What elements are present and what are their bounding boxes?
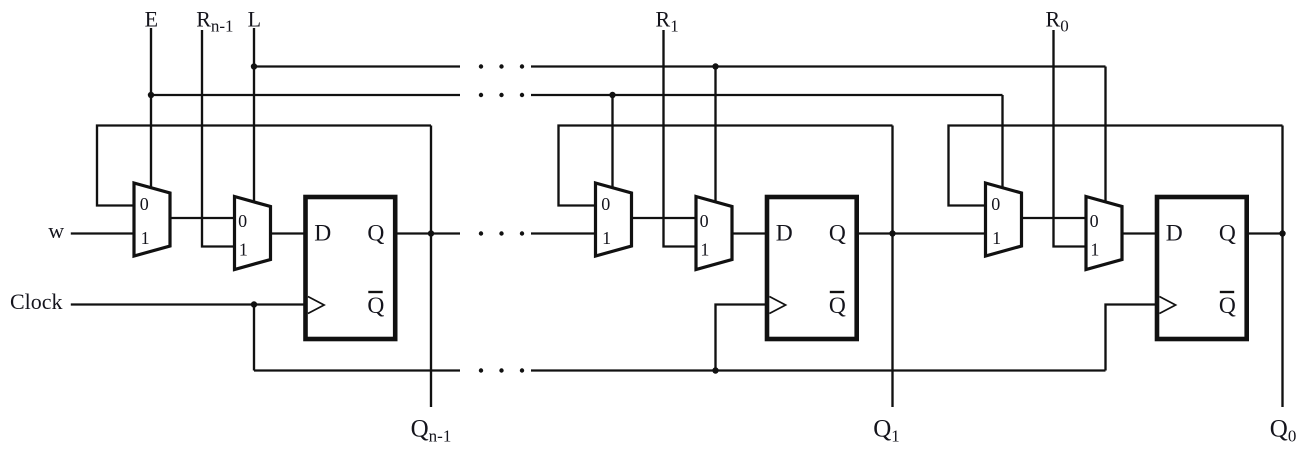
svg-text:1: 1 [700,239,709,259]
svg-text:Q: Q [1219,293,1236,319]
ellipsis dot 2 on clock bus [499,368,503,372]
junction: Q1 output node [889,230,895,236]
junction: Q0 output node [1279,230,1285,236]
svg-text:D: D [314,221,331,247]
svg-text:0: 0 [1090,211,1099,231]
svg-text:1: 1 [1090,239,1099,259]
wire: mux U6 out to FF3 D [1122,232,1157,234]
junction: L line on L bus [251,63,257,69]
ellipsis dot 2 on L bus [499,64,503,68]
svg-text:1: 1 [602,228,611,248]
wire: mux U1 out to mux U2 pin 0 [170,217,235,219]
wire: Clock input to FF1 clock [71,303,306,305]
svg-text:E: E [145,6,158,31]
wire: mux U5 out to mux U6 pin 0 [1022,217,1087,219]
wire: Q1 serial out to mux U5 pin 1 [857,232,986,234]
wire: clock bus riser to FF3 clock [1106,305,1158,371]
svg-text:0: 0 [140,194,149,214]
ellipsis dot 3 on L bus [520,64,524,68]
wire: Q0 output wire [1247,232,1283,234]
FF1 clock triangle [308,297,324,314]
junction: clock bus junction stage 2 [712,367,718,373]
mux U1 (2-to-1, select E) [134,183,170,256]
svg-text:0: 0 [991,194,1000,214]
ellipsis dot 2 on serial line [499,231,503,235]
wire: Q(n-1) serial out toward next stage [395,232,460,234]
wire: R0 input to mux U6 pin 1 [1054,30,1087,247]
wire: L bus (left segment) [254,65,460,67]
wire: w input to mux U1 pin 1 [71,232,134,234]
svg-text:0: 0 [601,194,610,214]
wire: R1 input to mux U4 pin 1 [664,30,697,247]
junction: Qn-1 output node [428,230,434,236]
svg-text:0: 0 [700,211,709,231]
junction: E line on E bus [148,92,154,98]
wire: L bus tap to mux U4 select [714,67,716,204]
svg-text:L: L [248,6,261,31]
FF2 Q-bar overline [830,291,844,293]
wire: clock bus (left segment) [254,369,460,371]
D flip-flop FF2 [767,197,857,339]
ellipsis dot 3 on clock bus [520,368,524,372]
mux U3 (2-to-1, select E) [596,183,632,256]
svg-text:Q: Q [1219,221,1236,247]
wire: mux U4 out to FF2 D [732,232,767,234]
ellipsis dot 2 on E bus [499,93,503,97]
svg-text:w: w [48,218,64,243]
ellipsis dot 3 on E bus [520,93,524,97]
wire: feedback Q1 to mux U3 pin 0 [559,126,893,206]
wire: L bus (right segment) [531,65,1106,67]
wire: E bus (left segment) [151,94,460,96]
wire: Rn-1 input to mux U2 pin 1 [202,30,235,247]
svg-text:1: 1 [992,228,1001,248]
FF2 clock triangle [769,297,785,314]
wire: feedback Q0 to mux U5 pin 0 [949,126,1283,206]
ellipsis dot 1 on clock bus [479,368,483,372]
wire: clock bus riser to FF2 clock [716,305,768,371]
wire: E bus tap to mux U3 select [611,95,613,189]
FF1 Q-bar overline [368,291,382,293]
FF3 Q-bar overline [1220,291,1234,293]
svg-text:Q: Q [367,221,384,247]
D flip-flop FF3 [1157,197,1247,339]
wire: mux U2 out to FF1 D [271,232,306,234]
wire: feedback Qn-1 to mux U1 pin 0 [97,126,431,206]
junction: L bus tap stage 2 [712,63,718,69]
svg-text:D: D [1166,221,1183,247]
junction: clock branch [251,301,257,307]
wire: Q0 vertical line [1281,126,1283,408]
svg-text:Q: Q [367,293,384,319]
mux U2 (2-to-1, select L) [235,197,271,270]
ellipsis dot 1 on E bus [479,93,483,97]
wire: L input vertical to mux U2 select [253,28,255,203]
svg-text:1: 1 [239,239,248,259]
mux U4 (2-to-1, select L) [696,197,732,270]
wire: E input vertical to mux U1 select [150,28,152,189]
ellipsis dot 1 on serial line [479,231,483,235]
ellipsis dot 1 on L bus [479,64,483,68]
svg-text:1: 1 [141,228,150,248]
wire: Qn-1 vertical line [430,126,432,408]
FF3 clock triangle [1159,297,1175,314]
ellipsis dot 3 on serial line [520,231,524,235]
svg-text:Clock: Clock [10,289,63,314]
wire: L bus tap to mux U6 select [1104,67,1106,204]
mux U6 (2-to-1, select L) [1086,197,1122,270]
junction: E bus tap stage 2 [609,92,615,98]
mux U5 (2-to-1, select E) [986,183,1022,256]
D flip-flop FF1 [306,197,396,339]
wire: mux U3 out to mux U4 pin 0 [632,217,697,219]
svg-text:Q: Q [829,293,846,319]
wire: E bus (right segment) [531,94,1003,96]
wire: clock bus (right segment) [531,369,1106,371]
wire: serial in to mux U3 pin 1 [531,232,596,234]
wire: Q1 vertical line [891,126,893,408]
wire: E bus tap to mux U5 select [1001,95,1003,189]
wire: clock drop to clock bus [253,305,255,371]
svg-text:0: 0 [238,211,247,231]
svg-text:Q: Q [829,221,846,247]
svg-text:D: D [776,221,793,247]
